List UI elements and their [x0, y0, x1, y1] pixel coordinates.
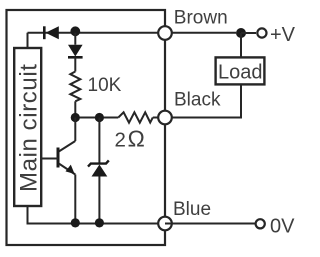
- resistor R2 2ohm: [118, 112, 153, 122]
- wire D2 to R1: [74, 57, 76, 71]
- svg-text:0V: 0V: [270, 216, 295, 238]
- terminal +V circle: [257, 28, 266, 37]
- node junction brown/divider: [70, 26, 80, 36]
- svg-text:+V: +V: [270, 24, 296, 46]
- diode D2 (vertical): [68, 45, 83, 58]
- node collector junction: [71, 113, 80, 122]
- wire load to black rail: [240, 84, 242, 117]
- wire black rail left: [75, 117, 118, 119]
- terminal 0V circle: [256, 219, 265, 228]
- load box: [216, 57, 265, 84]
- wire junction to +V: [241, 32, 256, 34]
- node zener bottom junction: [95, 218, 104, 227]
- wire black rail right: [153, 117, 242, 119]
- terminal black: [158, 111, 172, 125]
- wire blue to 0V: [165, 223, 256, 225]
- svg-text:Load: Load: [218, 62, 263, 84]
- sensor enclosure box: [7, 10, 166, 245]
- wire R1 to collector node: [74, 101, 76, 117]
- wire brown rail: [28, 32, 237, 34]
- svg-text:Black: Black: [174, 90, 221, 111]
- terminal blue: [158, 217, 172, 231]
- diode D1 (series protection): [44, 26, 59, 39]
- wire main-circuit to brown rail: [27, 33, 29, 48]
- transistor Q1: [41, 118, 75, 224]
- wire +V to load: [240, 33, 242, 57]
- node +V junction: [236, 28, 246, 38]
- node emitter junction: [71, 218, 80, 227]
- zener diode ZD: [88, 118, 109, 224]
- svg-text:2: 2: [115, 129, 126, 152]
- wire junction to diode D2: [74, 33, 76, 45]
- resistor R1 10K: [70, 72, 80, 102]
- svg-text:Blue: Blue: [173, 199, 211, 220]
- wire main-circuit to 0V rail: [28, 206, 166, 224]
- svg-text:Brown: Brown: [174, 7, 228, 28]
- main circuit block: [14, 48, 41, 206]
- svg-text:Main circuit: Main circuit: [16, 63, 43, 192]
- svg-text:Ω: Ω: [127, 126, 145, 152]
- terminal brown: [158, 26, 172, 40]
- svg-text:10K: 10K: [88, 75, 122, 96]
- node zener junction: [95, 113, 104, 122]
